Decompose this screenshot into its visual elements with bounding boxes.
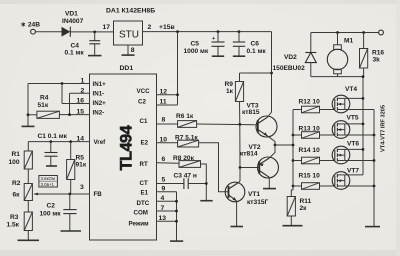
wire VT7 drain — [345, 174, 363, 176]
wire pin4 DTC — [157, 200, 177, 202]
wire pin6 RT out — [157, 162, 180, 164]
resistor R12 10 — [293, 98, 335, 112]
svg-text:R15 10: R15 10 — [299, 172, 321, 179]
svg-text:VT6: VT6 — [347, 141, 359, 148]
svg-text:Режим: Режим — [129, 221, 150, 228]
svg-text:6к: 6к — [13, 192, 21, 199]
wire VT1 collector to node A — [238, 168, 240, 184]
node junction C3/R8 — [205, 182, 208, 185]
svg-text:CT: CT — [140, 180, 148, 187]
node junction VT2 base — [239, 166, 242, 169]
wire R8 to ground column — [201, 164, 207, 200]
transistor VT1 kt315G NPN — [225, 182, 268, 206]
svg-text:VT4: VT4 — [345, 86, 357, 93]
svg-text:11: 11 — [160, 99, 167, 106]
diode VD1 IN4007 — [62, 10, 84, 36]
ground under VT1 — [231, 226, 244, 228]
resistor R7 5.1k — [175, 134, 199, 147]
node junction R9 top — [270, 72, 273, 75]
resistor R14 10 — [293, 147, 335, 164]
svg-text:150EBU02: 150EBU02 — [273, 65, 306, 72]
svg-text:R9: R9 — [225, 81, 234, 88]
svg-text:3.0в+1: 3.0в+1 — [41, 182, 55, 187]
wire gate bus to R11 — [291, 190, 293, 197]
mosfet VT5 IRF3205 — [332, 115, 359, 139]
node junction R13 tap — [292, 134, 295, 137]
svg-text:0.1 мк: 0.1 мк — [247, 48, 267, 55]
node junction VT6 source — [373, 159, 376, 162]
ground under R8/C3 — [200, 200, 212, 202]
node junction VCC drop — [176, 30, 179, 33]
svg-text:COM: COM — [134, 210, 148, 217]
svg-text:IN2-: IN2- — [93, 110, 105, 117]
svg-text:C2: C2 — [47, 203, 56, 210]
wire pin10 E2 out — [157, 142, 178, 144]
svg-text:91к: 91к — [76, 162, 87, 169]
transistor VT2 kt814 PNP — [240, 144, 279, 178]
svg-text:3k: 3k — [373, 56, 381, 63]
wire pin5 CT out — [157, 183, 184, 185]
value table annotation box — [39, 176, 58, 188]
wire motor bottom rail — [311, 76, 363, 78]
ground under R11 — [283, 225, 303, 227]
svg-text:12: 12 — [160, 88, 168, 95]
ground under pin bus — [170, 240, 183, 242]
wire pin14 Vref — [28, 142, 89, 151]
svg-text:R6 1к: R6 1к — [176, 113, 194, 120]
transistor VT3 kt815 NPN — [242, 103, 277, 138]
node junction R16 bottom — [362, 75, 365, 78]
ground under source bus — [365, 226, 380, 228]
svg-text:R4: R4 — [40, 95, 49, 102]
svg-text:DTC: DTC — [137, 200, 150, 207]
resistor R8 20k — [173, 155, 201, 168]
svg-text:С5: С5 — [191, 40, 200, 47]
node junction M1 top — [336, 31, 339, 34]
node junction FB / R5 / C2 — [68, 193, 71, 196]
resistor R3 1.5k — [7, 212, 33, 240]
svg-text:1000 мк: 1000 мк — [184, 48, 209, 55]
ground left chain — [22, 125, 35, 127]
wire VT4 drain — [345, 97, 363, 99]
svg-text:VT7: VT7 — [347, 167, 359, 174]
wire pin2 to pin15 vertical — [69, 93, 71, 114]
resistor R11 2k — [287, 197, 311, 226]
wire VT5 drain — [345, 123, 363, 125]
diode VD2 150EBU02 — [273, 33, 317, 77]
node junction R16 top — [362, 31, 365, 34]
wire R2 to R3 — [27, 201, 29, 213]
node junction VT4 drain — [362, 97, 365, 100]
node junction gate bus out — [292, 144, 295, 147]
svg-text:R1: R1 — [12, 151, 21, 158]
wire R4 left to pin1 vertical and ground — [28, 84, 37, 127]
wire VT7 source — [345, 185, 374, 187]
node junction R4 left — [27, 113, 30, 116]
svg-text:2: 2 — [148, 24, 152, 31]
svg-text:IN1+: IN1+ — [93, 81, 107, 88]
svg-text:3: 3 — [80, 184, 84, 191]
wire VT5 source — [345, 134, 374, 136]
svg-text:8: 8 — [131, 47, 135, 54]
mosfet VT7 IRF3205 — [332, 167, 359, 189]
DA1 ground lead pin 8 — [127, 45, 129, 55]
wire pin13 Rezhim — [157, 220, 177, 222]
ground under C6 — [233, 55, 245, 57]
IC DD1 TL494 — [90, 65, 157, 240]
svg-text:STU: STU — [119, 29, 139, 40]
wire pin15 IN2- — [59, 114, 89, 116]
svg-text:IN1-: IN1- — [93, 91, 105, 98]
svg-text:R13 10: R13 10 — [299, 125, 321, 132]
svg-text:VCC: VCC — [137, 88, 151, 95]
node junction VT7 source — [373, 185, 376, 188]
node junction pin13 bus — [175, 220, 178, 223]
svg-text:С6: С6 — [251, 40, 260, 47]
wire source bus — [373, 110, 375, 227]
svg-text:M1: M1 — [344, 37, 353, 44]
svg-text:0.1 мк: 0.1 мк — [65, 50, 85, 57]
wire pin9 E1 — [157, 191, 177, 193]
svg-text:R3: R3 — [10, 214, 19, 221]
wire ground bus pins 9-4-7-13 — [176, 192, 178, 241]
wire drain bus — [362, 77, 364, 175]
wire pin1 to pin16 vertical — [61, 84, 63, 104]
svg-text:8: 8 — [162, 117, 166, 124]
node junction C1 top — [49, 140, 52, 143]
capacitor C2 100uF — [40, 194, 77, 231]
capacitor C6 0.1uF — [233, 32, 267, 56]
wire driver output to gate bus — [275, 144, 293, 146]
capacitor C1 0.1uF — [38, 133, 68, 165]
svg-text:VT1: VT1 — [248, 191, 260, 198]
node junction R14 tap — [292, 159, 295, 162]
svg-text:R5: R5 — [76, 154, 85, 161]
node junction R15 tap — [292, 185, 295, 188]
terminal +24V input — [21, 22, 41, 35]
wire +15 down to pins 12 and 11 — [157, 32, 178, 105]
wire VT1 emitter to ground — [236, 201, 238, 226]
svg-text:С1 0.1 мк: С1 0.1 мк — [38, 133, 68, 140]
svg-text:5: 5 — [162, 176, 166, 183]
svg-text:∗ 24В: ∗ 24В — [21, 22, 41, 29]
resistor R15 10 — [293, 172, 335, 189]
node junction VT5 drain — [362, 123, 365, 126]
svg-text:C2: C2 — [138, 99, 146, 106]
node junction R4 right — [68, 113, 71, 116]
svg-text:DA1 К142ЕН8Б: DA1 К142ЕН8Б — [106, 8, 155, 15]
motor M1 — [327, 33, 353, 77]
svg-text:R14 10: R14 10 — [299, 147, 321, 154]
svg-text:кт815: кт815 — [242, 109, 260, 116]
svg-text:R8 20к: R8 20к — [173, 155, 195, 162]
wire VD1 to DA1 pin 17 — [70, 31, 113, 33]
wire motor supply rail — [311, 32, 379, 34]
ground under VT2 — [263, 188, 276, 190]
potentiometer R2 6k — [12, 180, 90, 200]
svg-text:VD2: VD2 — [284, 54, 297, 61]
svg-text:IN4007: IN4007 — [62, 18, 84, 25]
mosfet VT4 IRF3205 — [332, 86, 357, 113]
svg-text:DD1: DD1 — [120, 65, 134, 72]
wire gate bus — [292, 110, 294, 191]
wire R6 to node A — [197, 123, 258, 126]
resistor R6 1k — [176, 113, 197, 127]
wire R1 to R2 — [27, 169, 29, 184]
wire VT2 emitter to output node — [269, 145, 275, 158]
node junction C6 — [238, 30, 241, 33]
terminal motor supply — [379, 30, 384, 35]
svg-text:1к: 1к — [226, 88, 234, 95]
svg-text:C1: C1 — [140, 118, 148, 125]
svg-text:17: 17 — [103, 24, 111, 31]
node junction node A — [238, 123, 241, 126]
svg-text:R12 10: R12 10 — [299, 98, 321, 105]
resistor R9 1k — [225, 73, 244, 124]
node junction C4 tap — [93, 31, 96, 34]
wire node A down to VT2 base and VT1 collector — [239, 124, 241, 167]
wire pin1 IN1+ — [28, 83, 90, 85]
node junction pin4 bus — [175, 200, 178, 203]
node junction pin1/pin16 link — [61, 82, 64, 85]
svg-text:R2: R2 — [12, 180, 21, 187]
resistor R13 10 — [293, 125, 335, 138]
ground under R3 — [18, 239, 40, 241]
wire VT2 base — [240, 167, 259, 169]
capacitor C3 47n — [174, 173, 207, 189]
wire VT6 source — [345, 160, 374, 162]
node junction driver output — [274, 144, 277, 147]
svg-text:100 мк: 100 мк — [40, 210, 62, 217]
svg-text:2к: 2к — [300, 205, 308, 212]
svg-text:R16: R16 — [372, 49, 384, 56]
wire pin2 IN1- — [70, 92, 90, 94]
svg-text:3.6кОм: 3.6кОм — [41, 176, 55, 181]
svg-text:TL494: TL494 — [118, 124, 136, 170]
wire pin16 IN2+ — [62, 103, 90, 105]
svg-text:Vref: Vref — [94, 139, 107, 146]
svg-text:R7 5.1к: R7 5.1к — [175, 134, 198, 141]
node junction pin7 bus — [175, 210, 178, 213]
resistor R1 100 — [9, 151, 33, 169]
svg-text:51к: 51к — [38, 102, 49, 109]
resistor R16 3k — [360, 33, 385, 77]
wire +15V rail — [143, 31, 272, 33]
svg-text:кт814: кт814 — [240, 151, 258, 158]
ground under C4 — [88, 55, 102, 57]
mosfet VT6 IRF3205 — [332, 141, 359, 164]
wire R9 branch — [240, 72, 272, 74]
svg-text:кт315Г: кт315Г — [247, 199, 269, 206]
ground under C1 — [46, 165, 57, 167]
svg-text:VT4-VT7 IRF 3205: VT4-VT7 IRF 3205 — [381, 105, 387, 152]
wire +15 down to VT3 collector — [268, 32, 272, 118]
ground under C2 — [61, 230, 82, 232]
wire pin7 COM — [157, 210, 177, 212]
node junction R5 top — [69, 140, 72, 143]
resistor R4 51k — [37, 95, 60, 119]
svg-text:1.5к: 1.5к — [7, 222, 20, 229]
svg-text:+15в: +15в — [159, 24, 175, 31]
regulator DA1 K142EN8B (STU) — [106, 0, 156, 45]
node junction C5 — [217, 30, 220, 33]
wire VT4 source — [345, 109, 374, 111]
wire terminal to VD1 — [35, 31, 61, 33]
wire VT6 drain — [345, 148, 363, 150]
node junction VT5 source — [373, 134, 376, 137]
svg-text:VT5: VT5 — [347, 115, 359, 122]
svg-text:E2: E2 — [141, 140, 149, 147]
svg-text:6: 6 — [162, 156, 166, 163]
capacitor C5 1000uF electrolytic — [184, 32, 225, 56]
resistor R5 91k — [67, 142, 87, 194]
ground under C5 — [212, 55, 224, 57]
wire R7 to VT1 base — [199, 143, 229, 192]
node junction pin12 — [176, 93, 179, 96]
node junction VT6 drain — [362, 148, 365, 151]
svg-text:E1: E1 — [141, 190, 149, 197]
svg-text:RT: RT — [140, 161, 148, 168]
capacitor C4 0.1uF — [65, 32, 101, 57]
wire VT3 emitter to output node — [268, 136, 275, 145]
svg-text:IN2+: IN2+ — [93, 100, 107, 107]
wire pin8 C1 out — [157, 123, 178, 125]
svg-text:100: 100 — [9, 159, 20, 166]
wire VT2 collector to ground — [268, 177, 270, 188]
ground under DA1 — [122, 54, 135, 56]
svg-text:C3 47 н: C3 47 н — [174, 173, 197, 180]
svg-text:+: + — [212, 36, 215, 42]
svg-text:C4: C4 — [71, 42, 80, 49]
svg-text:FB: FB — [94, 191, 103, 198]
svg-text:VD1: VD1 — [65, 10, 78, 17]
